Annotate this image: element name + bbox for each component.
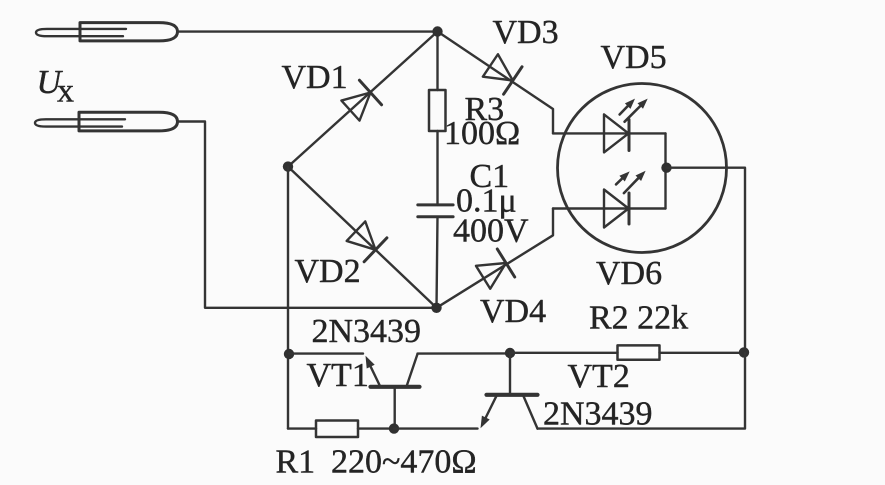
wire: bottom rail to VT2 emitter [394,427,478,429]
svg-text:VD3: VD3 [493,14,559,51]
wire: bottom rail left segment [288,427,316,429]
node: VT1 base junction on bottom rail [389,423,399,433]
diode VD3 [481,52,522,94]
svg-text:100Ω: 100Ω [444,115,520,152]
svg-text:VD1: VD1 [282,59,348,96]
label VT1 type 2N3439 [312,313,422,350]
wire: VT1 collector rail to VT2 base node [418,352,511,355]
diode VD2 [345,219,387,262]
svg-text:VD2: VD2 [295,253,361,290]
label VD6 [596,255,662,292]
label VD1 [282,59,348,96]
wire: bridge diagonal top-node to right corner, into LED VD5 [438,32,554,134]
wire: bridge diagonal left-node to top-node [288,32,438,167]
wire: R1 to VT1 base node [358,427,394,429]
wire: probe 1 to bridge top node [178,30,438,32]
label VD4 [480,293,546,330]
svg-text:220~470Ω: 220~470Ω [331,444,477,481]
wire: left rail down from bridge left node [287,167,289,429]
label VT1 [307,357,369,394]
LED VD5 [604,99,648,153]
wire: top node to R3 [436,32,438,91]
capacitor C1 [418,205,453,217]
probe 1 needle (top test lead) [36,29,126,36]
svg-text:VD4: VD4 [480,293,546,330]
label VT2 type 2N3439 [543,396,653,433]
svg-text:VD6: VD6 [596,255,662,292]
LED VD6 [604,171,646,228]
label C1 [470,158,510,195]
node: VT1 collector / VT2 base / R2 junction [505,348,515,358]
transistor VT1 [366,354,420,429]
wire: R3 to C1 [436,131,438,205]
wire: VD5 anode wire through LED [553,132,666,134]
label C1 value 400V [453,213,529,250]
svg-text:VD5: VD5 [601,39,667,76]
wire: probe 2 down and to bridge bottom node [178,122,437,308]
label VD5 [601,39,667,76]
wire: bridge diagonal bottom-node to right corner, into LED VD6 [437,209,554,308]
svg-text:R2 22k: R2 22k [589,300,688,337]
probe 1 body [80,23,178,41]
svg-text:400V: 400V [453,213,529,250]
svg-text:x: x [57,73,74,110]
label VD3 [493,14,559,51]
label R1 [276,444,316,481]
svg-text:VT1: VT1 [307,357,369,394]
wire: VD6 anode wire through LED [553,207,666,209]
label Ux [37,64,75,110]
resistor R1 [316,421,358,438]
diode VD1 [339,80,381,123]
label VT2 [568,358,630,395]
node: right rail junction [739,347,749,357]
wire: LED cathode bus [664,133,666,208]
wire: VT2 collector to right rail [538,353,746,429]
probe 2 needle (bottom test lead) [35,119,125,126]
label C1 value 0.1u [456,183,517,220]
node: bridge left junction [283,161,293,171]
label R3 [465,91,505,128]
node: left rail and emitter-rail junction [284,349,294,359]
transistor VT2 [481,353,538,428]
label VD2 [295,253,361,290]
resistor R3 [429,90,446,131]
svg-text:VT2: VT2 [568,358,630,395]
diode VD4 [474,249,514,291]
LED indicator circle [558,84,727,253]
wire: node to R2 [510,352,618,354]
label R1 value 220~470 ohm [331,444,477,481]
wire: LED junction to right rail [667,168,746,353]
resistor R2 [618,345,660,359]
label R2 value 22k [589,300,688,337]
wire: rail toward VT1 emitter [289,352,363,354]
svg-text:2N3439: 2N3439 [543,396,653,433]
wire: bridge diagonal left-node to bottom-node [288,167,437,308]
wire: C1 to bottom node [437,217,438,308]
label R3 value 100 ohm [444,115,520,152]
svg-text:R1: R1 [276,444,316,481]
node: bridge bottom junction [431,303,441,313]
probe 2 body [79,112,178,131]
node: LED output junction [661,163,671,173]
svg-text:2N3439: 2N3439 [312,313,422,350]
node: bridge top junction [432,26,442,36]
wire: R2 to right rail node [660,352,746,354]
